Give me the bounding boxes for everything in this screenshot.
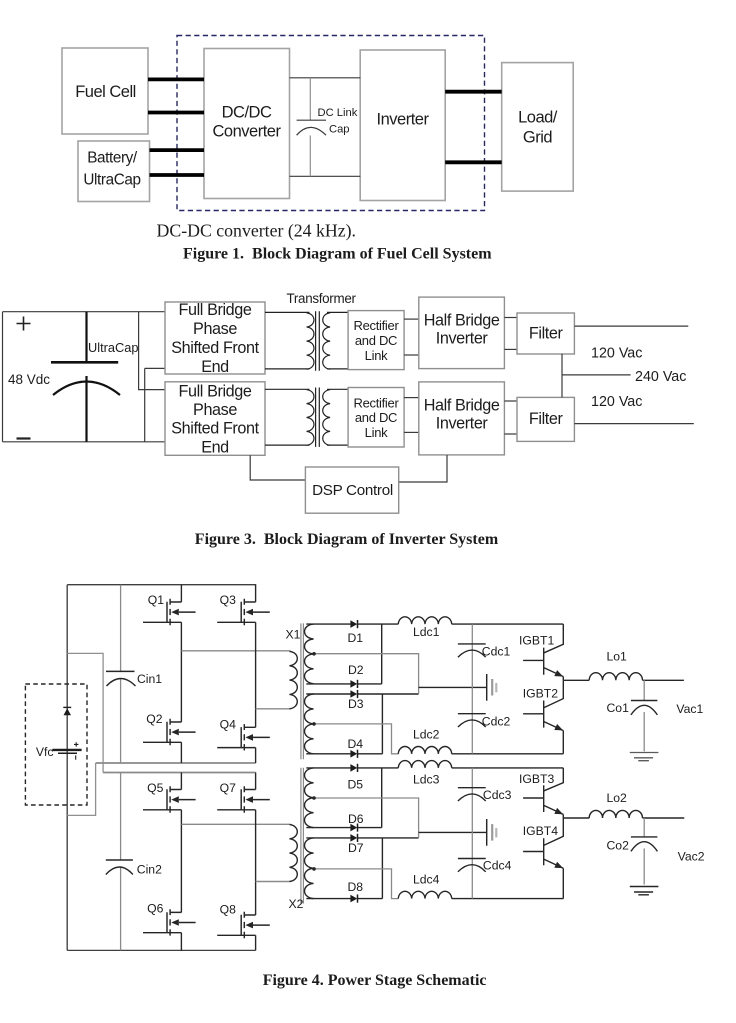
wire Vfc minus return [67, 763, 95, 815]
block Half Bridge Inverter 1 [419, 297, 505, 369]
wire branch to bridge2 [139, 312, 165, 390]
svg-text:Transformer: Transformer [287, 291, 357, 306]
svg-text:Ldc4: Ldc4 [413, 873, 440, 887]
wire leg B2 to bottom rail [255, 935, 257, 950]
wire fuel cell to dcdc top [148, 78, 204, 82]
svg-text:IGBT3: IGBT3 [519, 772, 554, 786]
wire Cdc leg 1 [471, 624, 473, 754]
svg-text:D6: D6 [348, 812, 364, 826]
block DSP Control [305, 467, 398, 513]
block Fuel Cell [62, 48, 148, 134]
svg-text:UltraCap: UltraCap [83, 172, 140, 189]
capacitor Cdc1 [458, 644, 486, 657]
wire D2 line [306, 683, 381, 685]
transistor Q7 [217, 786, 270, 812]
svg-text:D3: D3 [348, 697, 364, 711]
wire rect1 to hb1 bottom [404, 354, 419, 356]
wire leg B2 middle [255, 810, 257, 915]
svg-text:Inverter: Inverter [377, 111, 430, 129]
svg-text:UltraCap: UltraCap [88, 340, 139, 355]
wire mid node 1 to ground [419, 686, 487, 688]
diode D8 [350, 895, 357, 903]
svg-text:Converter: Converter [213, 123, 282, 141]
block Filter 2 [517, 397, 574, 441]
transformer X2 secondary winding upper [305, 768, 314, 828]
svg-text:D5: D5 [348, 778, 364, 792]
svg-text:Filter: Filter [529, 410, 564, 428]
wire midpoint 2 to Lo2 [563, 817, 589, 819]
wire D4 line [306, 753, 382, 755]
dashed DC-DC converter boundary box [177, 36, 485, 211]
capacitor Cdc3 [458, 788, 486, 801]
diode D4 [350, 750, 357, 758]
junction dot tap4 [312, 867, 316, 871]
svg-text:Figure 3. Block Diagram of In: Figure 3. Block Diagram of Inverter Syst… [195, 531, 499, 548]
svg-text:D4: D4 [348, 737, 364, 751]
wire left vertical [2, 312, 4, 442]
wire mid bus lower [103, 772, 256, 774]
svg-text:and DC: and DC [355, 333, 397, 348]
junction dot tap3 [312, 796, 316, 800]
transistor Q4 [217, 724, 270, 750]
svg-text:Q7: Q7 [220, 781, 236, 795]
wire X1 primary top feed [181, 650, 290, 652]
svg-text:Load/: Load/ [518, 109, 558, 127]
inductor Ldc3 [398, 761, 451, 768]
IGBT4 [523, 818, 563, 899]
transformer X1 secondary winding lower [305, 694, 314, 754]
wire leg A to bus [180, 742, 182, 763]
wire D3-D4 junction vertical [381, 694, 383, 754]
svg-text:Fuel Cell: Fuel Cell [75, 83, 136, 101]
svg-text:Cin2: Cin2 [137, 863, 162, 877]
svg-text:X1: X1 [286, 628, 301, 642]
svg-text:Shifted Front: Shifted Front [171, 420, 259, 438]
wire battery to dcdc top [150, 148, 205, 152]
transformer X1 secondary winding upper [305, 624, 314, 684]
svg-text:Q8: Q8 [220, 903, 236, 917]
diode D3 [350, 690, 357, 698]
wire leg A2 to bottom rail [180, 933, 182, 951]
inductor Ldc4 [398, 891, 451, 898]
dashed fuel cell box [25, 684, 87, 805]
inductor Ldc2 [398, 746, 451, 753]
svg-text:Vfc: Vfc [36, 745, 54, 759]
ground below Co2 [630, 887, 659, 895]
svg-text:Vac2: Vac2 [678, 850, 705, 864]
wire battery to dcdc bottom [150, 173, 205, 177]
wire top rail 2 to IGBT3 [452, 767, 564, 769]
svg-text:Co2: Co2 [607, 839, 630, 853]
block Load/Grid [502, 63, 574, 192]
wire top rail 1 to IGBT1 [452, 623, 564, 625]
wire leg B drain stub [255, 585, 257, 602]
svg-text:DC Link: DC Link [318, 107, 358, 119]
svg-text:Link: Link [365, 348, 388, 363]
wire D5-D6 junction vertical [381, 768, 383, 828]
svg-text:Full Bridge: Full Bridge [179, 301, 252, 319]
wire hb1 to filter1 top [504, 317, 517, 319]
wire 48V bottom rail [3, 441, 166, 443]
ground 2 bars [487, 819, 497, 846]
block Full Bridge 1 [165, 301, 265, 376]
svg-text:IGBT2: IGBT2 [523, 687, 558, 701]
svg-text:Shifted Front: Shifted Front [171, 339, 259, 357]
wire X1 center tap 2 [314, 724, 399, 754]
wire rect2 to hb2 top [404, 397, 419, 399]
wire X1 center tap 1 [314, 654, 419, 694]
svg-text:Full Bridge: Full Bridge [179, 383, 252, 401]
svg-text:Link: Link [365, 425, 388, 440]
IGBT3 [523, 768, 563, 818]
wire leg A2 middle [180, 810, 182, 913]
svg-text:Q1: Q1 [148, 593, 164, 607]
svg-text:X2: X2 [289, 897, 304, 911]
block Inverter [360, 50, 445, 201]
ground below Co1 [630, 753, 659, 761]
wire X2 primary top feed [181, 823, 290, 825]
wire D1 line [306, 623, 398, 625]
minus terminal [17, 437, 31, 439]
svg-text:IGBT4: IGBT4 [523, 824, 558, 838]
wire Vfc plus branch to lower bridge [67, 653, 103, 772]
svg-text:Ldc3: Ldc3 [413, 773, 440, 787]
wire 240 Vac [562, 374, 631, 376]
transformer X2 core [301, 768, 304, 904]
svg-text:Cdc1: Cdc1 [482, 645, 511, 659]
wire D7 line [306, 837, 418, 839]
wire dc link rail top [290, 77, 361, 79]
wire fuel cell to dcdc bottom [148, 111, 204, 115]
FIGURE 3 [3, 291, 694, 548]
wire D1-D2 junction vertical [381, 624, 383, 684]
diode D7 [350, 834, 357, 842]
svg-text:Ldc1: Ldc1 [413, 625, 440, 639]
svg-text:D8: D8 [348, 880, 364, 894]
diode D6 [350, 824, 357, 832]
wire Lo1 output [643, 679, 684, 681]
wire hb1 to filter1 bottom [504, 348, 517, 350]
capacitor Cin1 [106, 585, 136, 763]
transformer X2 primary winding [290, 825, 298, 882]
svg-text:Q3: Q3 [220, 593, 236, 607]
svg-text:Q6: Q6 [147, 902, 163, 916]
transistor Q5 [143, 786, 196, 812]
junction dot tap2 [312, 722, 316, 726]
svg-text:Figure 4. Power Stage Schemati: Figure 4. Power Stage Schematic [263, 972, 487, 989]
wire D6 line [306, 827, 381, 829]
transistor Q6 [143, 909, 196, 935]
bottom rail [67, 949, 255, 951]
transformer X1 core [301, 623, 304, 759]
top rail [67, 584, 256, 586]
svg-text:Grid: Grid [523, 129, 552, 147]
IGBT2 [523, 680, 563, 754]
wire leg B middle [255, 622, 257, 727]
wire filter1 output [574, 325, 688, 327]
transistor Q8 [217, 912, 270, 938]
wire leg A2 stub [180, 773, 182, 790]
wire rect2 to hb2 bottom [404, 431, 419, 433]
wire midpoint 1 to Lo1 [563, 679, 589, 681]
svg-text:Half Bridge: Half Bridge [424, 397, 500, 415]
wire leg A drain stub [180, 585, 182, 602]
IGBT1 [523, 624, 563, 680]
diode D2 [350, 680, 357, 688]
wire Lo2 output [643, 817, 685, 819]
wire X2 primary bottom feed [256, 881, 291, 883]
svg-text:Lo2: Lo2 [607, 791, 628, 805]
svg-text:Ldc2: Ldc2 [413, 728, 440, 742]
wire X2 center tap 1 [314, 798, 419, 838]
wire X1 primary bottom feed [256, 708, 291, 710]
inductor Lo2 [589, 810, 642, 818]
transistor Q1 [143, 599, 196, 625]
svg-text:End: End [201, 439, 229, 457]
capacitor Cdc4 [458, 859, 486, 872]
svg-text:Cdc3: Cdc3 [483, 788, 512, 802]
junction dot tap1 [312, 652, 316, 656]
FIGURE 1 [62, 36, 573, 263]
wire inverter to load top [445, 90, 502, 94]
block Half Bridge Inverter 2 [419, 382, 505, 455]
wire hb2 to filter2 top [504, 400, 517, 402]
svg-text:Phase: Phase [193, 320, 237, 338]
svg-text:120 Vac: 120 Vac [591, 346, 642, 362]
inductor Lo1 [589, 673, 642, 681]
wire inverter to load bottom [445, 160, 502, 164]
wire mid node 2 to ground [419, 831, 487, 833]
block Rectifier and DC Link 1 [348, 311, 404, 370]
svg-text:120 Vac: 120 Vac [591, 394, 642, 410]
diode D1 [350, 620, 357, 628]
wire leg B to bus [255, 748, 257, 763]
capacitor Co1 [631, 680, 658, 751]
left outer wire [66, 585, 68, 951]
svg-text:Q5: Q5 [147, 781, 163, 795]
svg-text:Q4: Q4 [220, 718, 236, 732]
svg-text:DSP Control: DSP Control [312, 482, 393, 499]
wire D3 line [306, 693, 418, 695]
plus terminal [17, 317, 31, 331]
wire filter link vertical [561, 354, 563, 398]
svg-text:Rectifier: Rectifier [354, 318, 400, 333]
wire D7-D8 junction vertical [381, 838, 383, 899]
svg-text:DC-DC converter (24 kHz).: DC-DC converter (24 kHz). [157, 221, 356, 242]
capacitor DC Link Cap [297, 78, 326, 177]
svg-text:240 Vac: 240 Vac [635, 369, 686, 385]
svg-text:Cdc2: Cdc2 [482, 715, 511, 729]
wire bottom rail 2 to IGBT4 [452, 898, 564, 900]
svg-text:D1: D1 [348, 631, 364, 645]
svg-text:Q2: Q2 [146, 712, 162, 726]
svg-text:D7: D7 [348, 841, 364, 855]
block Full Bridge 2 [165, 382, 265, 457]
svg-text:DC/DC: DC/DC [222, 104, 272, 122]
svg-text:End: End [201, 358, 229, 376]
svg-text:IGBT1: IGBT1 [519, 634, 554, 648]
wire leg B2 stub [255, 773, 257, 790]
svg-text:Cin1: Cin1 [137, 672, 162, 686]
diode fuel cell [63, 707, 71, 715]
wire filter2 output [574, 423, 693, 425]
capacitor Co2 [631, 818, 658, 885]
inductor Ldc1 [398, 617, 451, 624]
capacitor UltraCap [51, 312, 120, 442]
wire Cdc leg 2 [471, 768, 473, 899]
svg-text:Inverter: Inverter [436, 415, 489, 433]
wire X2 center tap 2 [314, 869, 399, 899]
wire hb2 to filter2 bottom [504, 433, 517, 435]
wire bottom rail 1 to IGBT2 [452, 753, 564, 755]
svg-text:and DC: and DC [355, 410, 397, 425]
wire leg A middle [180, 622, 182, 722]
svg-text:Inverter: Inverter [436, 330, 489, 348]
svg-text:Vac1: Vac1 [676, 702, 703, 716]
transformer X1 primary winding [290, 651, 298, 708]
svg-text:Co1: Co1 [607, 701, 630, 715]
capacitor Cdc2 [458, 714, 486, 727]
capacitor Cin2 [106, 773, 133, 951]
battery Vfc symbol [52, 742, 81, 760]
svg-text:D2: D2 [348, 663, 364, 677]
block Rectifier and DC Link 2 [348, 388, 404, 448]
transformer X2 secondary winding lower [305, 838, 314, 899]
svg-text:Battery/: Battery/ [87, 150, 138, 167]
svg-text:Rectifier: Rectifier [354, 396, 400, 411]
wire bridge1 return [145, 368, 165, 441]
diode D5 [350, 764, 357, 772]
wire mid bus upper [96, 762, 256, 764]
ground 1 bars [487, 674, 497, 701]
wire D8 line [306, 898, 382, 900]
svg-text:Cdc4: Cdc4 [483, 859, 512, 873]
svg-text:Filter: Filter [529, 325, 564, 343]
transistor Q2 [143, 719, 196, 745]
wire 48V top rail [3, 311, 166, 313]
svg-text:Half Bridge: Half Bridge [424, 312, 500, 330]
transformer T1 [265, 311, 348, 370]
wire dc link rail bottom [290, 175, 361, 177]
svg-text:Figure 1. Block Diagram of Fu: Figure 1. Block Diagram of Fuel Cell Sys… [183, 246, 492, 263]
transistor Q3 [217, 599, 270, 625]
svg-text:Phase: Phase [193, 401, 237, 419]
transformer T2 [265, 388, 348, 447]
wire hb2 to DSP [399, 455, 447, 482]
block Battery/UltraCap [78, 141, 150, 202]
block DC/DC Converter [204, 49, 290, 199]
wire rect1 to hb1 top [404, 318, 419, 320]
svg-text:Cap: Cap [329, 124, 350, 136]
wire D5 line [306, 767, 398, 769]
block Filter 1 [517, 313, 574, 354]
wire bridge2 to DSP [250, 455, 305, 480]
svg-text:48 Vdc: 48 Vdc [8, 372, 50, 387]
svg-text:Lo1: Lo1 [607, 650, 628, 664]
